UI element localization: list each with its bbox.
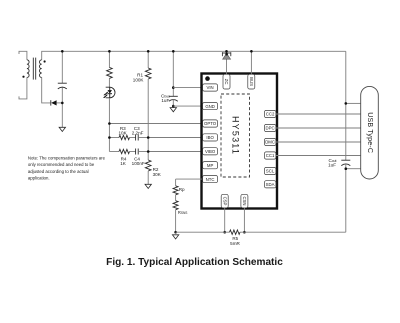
wire C_out bottom: [345, 164, 347, 232]
junction dot GND conn: [345, 167, 348, 170]
capacitor C4: [130, 149, 149, 167]
svg-text:only recommended and need to: only recommended and need to be: [28, 162, 95, 167]
junction dot R1 on rail: [147, 50, 150, 53]
transformer T1 secondary phase dot: [44, 60, 46, 62]
wire OPTO: [109, 123, 202, 125]
pin VIN: [203, 84, 218, 91]
svg-text:1uF: 1uF: [328, 163, 336, 168]
junction dot cap top rail: [61, 50, 64, 53]
svg-text:DPC: DPC: [266, 126, 275, 131]
junction dot R3 left: [108, 136, 111, 139]
wire CSN down: [243, 208, 245, 232]
optocoupler LED U2: [103, 87, 115, 98]
wire BUS pin: [250, 51, 252, 74]
junction dot bottom-left rail: [174, 231, 177, 234]
pin IBO: [203, 134, 218, 141]
pin CC2: [264, 110, 276, 117]
resistor R3: [109, 126, 129, 140]
junction dot OPTO node: [108, 122, 111, 125]
wire ZC: [226, 51, 228, 74]
wire IBO: [148, 137, 202, 139]
wire R1 bottom to divider: [147, 79, 149, 160]
wire Rp to Rsns: [175, 195, 177, 201]
wire bottom rail right: [240, 231, 346, 233]
svg-text:100K: 100K: [133, 77, 145, 82]
wire VBUS to connector: [346, 102, 361, 104]
wire LED to OPTO node: [108, 98, 110, 152]
junction dot cap bottom node: [61, 102, 64, 105]
wire GND: [173, 105, 202, 107]
diode D1 secondary rectifier: [51, 100, 63, 105]
svg-text:CSN: CSN: [242, 196, 247, 205]
wire CC2: [276, 113, 361, 115]
wire VIN: [173, 87, 202, 89]
junction dot ZC rail: [225, 50, 228, 53]
diode D2 zener on ZC: [222, 52, 230, 59]
pin CSN: [241, 194, 248, 208]
wire DPC: [276, 127, 361, 129]
wire bottom rail: [176, 231, 230, 233]
svg-text:NTC: NTC: [206, 177, 215, 182]
ground GND4: [172, 235, 178, 239]
transformer T1 core: [33, 58, 35, 80]
resistor R2: [145, 160, 161, 184]
svg-text:1K: 1K: [120, 161, 127, 166]
wire VBUS bus down: [345, 51, 347, 160]
junction dot VBUS conn: [345, 102, 348, 105]
ground GND2: [170, 108, 176, 112]
pin DMC: [264, 138, 276, 145]
junction dot CSN rail: [243, 231, 246, 234]
junction dot CSP rail: [223, 231, 226, 234]
svg-text:100nF: 100nF: [132, 161, 145, 166]
transformer T1 secondary winding: [39, 60, 50, 103]
svg-text:Fig. 1. Typical Application Sc: Fig. 1. Typical Application Schematic: [106, 257, 283, 268]
svg-text:RSNS: RSNS: [178, 210, 188, 215]
svg-text:Note: The compensation paramet: Note: The compensation parameters are: [28, 155, 106, 160]
capacitor C_o output electrolytic: [58, 51, 67, 127]
resistor series with LED: [107, 67, 113, 78]
wire CSP down: [224, 208, 226, 232]
svg-text:SCL: SCL: [266, 169, 275, 174]
ground GND1: [59, 127, 65, 131]
wire CC1: [276, 155, 361, 157]
svg-text:30K: 30K: [153, 172, 162, 177]
svg-text:VIN: VIN: [207, 85, 214, 90]
pin DPC: [264, 124, 276, 131]
pin GND: [203, 103, 218, 110]
junction dot VIBO node: [147, 150, 150, 153]
svg-text:adjusted according to the actu: adjusted according to the actual: [28, 169, 89, 174]
svg-text:CC2: CC2: [266, 112, 275, 117]
svg-text:DMC: DMC: [265, 140, 275, 145]
wire resistor to LED: [108, 78, 110, 87]
svg-text:IBO: IBO: [206, 135, 214, 140]
wire DMC: [276, 141, 361, 143]
junction dot Cbus on rail: [172, 50, 175, 53]
capacitor C3: [130, 126, 149, 141]
svg-text:CSP: CSP: [222, 197, 227, 206]
pin OPTO: [203, 120, 218, 127]
pin NTC: [203, 176, 218, 183]
junction dot BUS rail: [250, 50, 253, 53]
svg-text:5mR: 5mR: [230, 241, 240, 246]
pin 1 mark: [205, 76, 210, 81]
pin SDA: [264, 181, 276, 188]
IC U1 inner dashed box: [221, 94, 250, 177]
wire top rail VBUS: [42, 51, 346, 60]
wire optocoupler branch: [108, 51, 110, 67]
svg-text:USB Type-C: USB Type-C: [366, 112, 373, 153]
svg-text:2.2nF: 2.2nF: [132, 131, 144, 136]
svg-text:SDA: SDA: [266, 182, 275, 187]
capacitor C_out: [328, 158, 350, 168]
pin VIBO: [203, 148, 218, 155]
USB Type-C connector J1: [361, 86, 379, 179]
pin MP: [203, 162, 218, 169]
svg-text:VIBO: VIBO: [205, 149, 216, 154]
svg-text:HY5311: HY5311: [230, 116, 240, 155]
svg-text:application.: application.: [28, 176, 50, 181]
pin SCL: [264, 167, 276, 174]
svg-text:OPTO: OPTO: [204, 121, 217, 126]
note text: [28, 155, 106, 180]
svg-text:ZC: ZC: [224, 79, 229, 85]
svg-text:Rp: Rp: [179, 187, 185, 192]
transformer T1 primary winding: [19, 51, 29, 99]
resistor R1: [133, 51, 151, 82]
IC U1 HY5311 body: [202, 74, 278, 209]
pin CSP: [221, 194, 228, 208]
svg-text:BUS: BUS: [249, 77, 254, 86]
ground GND3: [145, 184, 151, 188]
junction dot IBO node: [147, 136, 150, 139]
wire VIBO: [148, 151, 202, 153]
pin BUS: [248, 74, 255, 89]
junction dot GND node: [172, 105, 175, 108]
svg-text:MP: MP: [207, 163, 214, 168]
resistor Rp: [173, 179, 185, 195]
junction dot opto branch on rail: [108, 50, 111, 53]
capacitor C_bus branch: [161, 51, 178, 106]
pin CC1: [264, 152, 276, 159]
junction dot VIN node: [172, 86, 175, 89]
svg-text:GND: GND: [205, 104, 215, 109]
wire NTC: [176, 178, 202, 180]
pin ZC: [223, 74, 230, 89]
wire GND to connector: [346, 168, 361, 170]
svg-text:CC1: CC1: [266, 153, 275, 158]
resistor R5 sense: [230, 230, 241, 246]
resistor R4: [109, 149, 129, 166]
resistor Rsns: [173, 201, 187, 233]
transformer T1 primary phase dot: [22, 76, 24, 78]
svg-text:1uF: 1uF: [161, 98, 169, 103]
svg-text:10K: 10K: [119, 131, 128, 136]
